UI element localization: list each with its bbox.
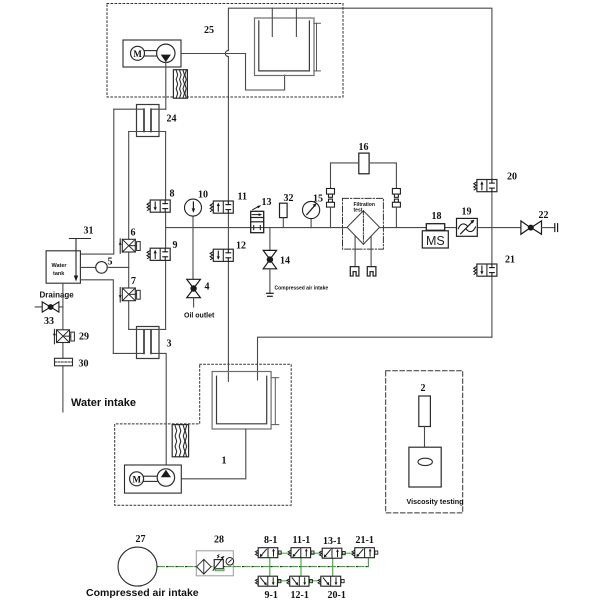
wire: vertical line down to valve 11: [227, 57, 229, 201]
wire: sampling line right: [370, 236, 372, 267]
svg-text:24: 24: [167, 114, 177, 125]
svg-text:32: 32: [284, 193, 294, 204]
valve 11: [210, 201, 233, 213]
heater coil 25: [173, 70, 187, 99]
test filter diamond: [347, 211, 380, 245]
sensor 32: [280, 203, 288, 217]
motor-pump unit 1: [125, 465, 182, 493]
svg-text:10: 10: [198, 190, 208, 201]
wire: 16 left branch: [331, 163, 359, 189]
svg-text:31: 31: [84, 226, 94, 237]
green link bottom row 2: [309, 580, 321, 582]
shaft coupling 25: [145, 50, 157, 52]
wire: hop over pump suction line on vertical x=228.4: [225, 50, 228, 56]
green link top row 2: [310, 552, 323, 554]
svg-text:22: 22: [539, 210, 549, 221]
pilot valve 8-1: [255, 548, 281, 558]
valve 6: [119, 239, 140, 254]
svg-text:33: 33: [44, 316, 54, 327]
wire: horizontal return to tank 1 second dip tube: [258, 337, 492, 380]
svg-text:Water intake: Water intake: [71, 397, 136, 409]
heater coil 1: [172, 425, 188, 457]
pilot valve 20-1: [318, 576, 344, 586]
wire: pump 25 suction from tank 25: [181, 54, 285, 91]
svg-text:20-1: 20-1: [328, 590, 346, 600]
green stub 13-1/20-1: [332, 558, 334, 576]
water tank: [46, 251, 80, 283]
pump circle 25 with down flow triangle: [157, 44, 175, 62]
valve 29: [53, 329, 74, 344]
air gauge 28: [226, 558, 234, 566]
thermometer 10: [192, 216, 194, 228]
air intake circle 27: [118, 547, 157, 586]
svg-text:25: 25: [204, 25, 214, 36]
svg-text:30: 30: [79, 359, 89, 370]
wire: viscometer stem: [424, 427, 426, 462]
wire: between valve 11 and valve 12: [227, 213, 229, 249]
tank 25 dip tube 2: [295, 8, 297, 36]
outlet valve 22: [521, 221, 542, 234]
motor M circle 1: [130, 472, 144, 486]
svg-text:Oil outlet: Oil outlet: [184, 313, 215, 320]
svg-text:4: 4: [205, 282, 210, 293]
water filling port 31: [69, 238, 90, 240]
wire: drainage line: [35, 306, 63, 308]
wire: water tank top connection up to exchanger 24: [80, 109, 113, 254]
water filter 30: [55, 358, 73, 366]
green link top row 3: [341, 552, 355, 554]
motor-pump unit of tank 25: [123, 40, 181, 67]
wire: pump 5 to cooling pipe: [107, 266, 128, 268]
heat exchanger 3: [137, 327, 160, 359]
MS measuring box: [422, 231, 448, 248]
wire: left cooling pipe with valves 6,7: [128, 132, 130, 240]
wire: line 20/21 between valves and down to y=337: [491, 192, 493, 264]
svg-text:11: 11: [238, 192, 247, 203]
green stub 11-1/12-1: [300, 558, 302, 576]
svg-text:13: 13: [262, 197, 272, 208]
exchanger 3 inner tube right: [150, 330, 152, 353]
pump circle 1 with up flow triangle: [157, 469, 174, 486]
svg-text:19: 19: [462, 207, 472, 218]
green stub 21-1: [367, 558, 369, 567]
green link top row 1: [278, 552, 291, 554]
quick coupler pair right: [392, 189, 400, 208]
svg-text:21-1: 21-1: [356, 535, 374, 546]
wire: exchanger 24 bottom header: [129, 131, 166, 133]
wire: 16 right branch: [369, 163, 396, 189]
wire: main horizontal line: [166, 227, 521, 229]
svg-text:5: 5: [108, 257, 113, 268]
wire: oil outlet branch: [192, 228, 194, 280]
svg-text:3: 3: [167, 339, 172, 350]
motor M circle 25: [131, 46, 145, 60]
svg-text:Drainage: Drainage: [40, 291, 75, 300]
wire: tank to water pump 5: [80, 266, 95, 268]
svg-text:14: 14: [280, 256, 290, 267]
drain valve 33: [42, 302, 59, 312]
valve 21: [474, 264, 497, 276]
wire: exchanger 3 left outlet: [113, 352, 144, 354]
wire: exchanger 24 to pump line: [151, 108, 166, 110]
svg-text:1: 1: [222, 456, 227, 467]
valve 8: [147, 200, 170, 212]
svg-text:Compressed air intake: Compressed air intake: [275, 286, 329, 292]
wire: valve 22 outlet port: [542, 227, 555, 229]
svg-text:6: 6: [131, 228, 136, 239]
heat exchanger 24: [137, 105, 160, 137]
exchanger 24 inner tube left: [143, 109, 145, 131]
air inlet port ground mark: [267, 292, 274, 294]
wire: sampling line left: [354, 236, 356, 267]
svg-text:12: 12: [236, 241, 246, 252]
svg-text:tank: tank: [53, 271, 65, 277]
wire: right pipe through valves 8,9: [165, 132, 167, 201]
tank 1 outer shell: [212, 372, 271, 430]
wire: tank bottom connection down to exchanger 3 outlet: [80, 280, 113, 354]
water pump 5: [96, 262, 108, 274]
green stub 8-1/9-1: [269, 558, 271, 576]
svg-text:16: 16: [359, 142, 369, 153]
green air manifold line: [157, 566, 368, 568]
svg-text:11-1: 11-1: [293, 535, 311, 546]
air service unit 28 box: [196, 551, 233, 576]
svg-text:20: 20: [507, 172, 517, 183]
tank 1 inner wall: [217, 376, 267, 424]
pilot valve 12-1: [287, 576, 313, 586]
svg-text:7: 7: [131, 276, 136, 287]
svg-text:9-1: 9-1: [265, 590, 278, 600]
wire: water intake vertical line: [62, 283, 64, 330]
svg-text:28: 28: [214, 535, 224, 546]
svg-text:MS: MS: [426, 234, 445, 248]
orifice 18: [426, 224, 444, 231]
svg-text:12-1: 12-1: [291, 590, 309, 600]
svg-text:M: M: [133, 474, 142, 484]
svg-text:Compressed air intake: Compressed air intake: [86, 587, 199, 599]
svg-text:21: 21: [505, 255, 515, 266]
wire: compressed air inlet branch with valve 14: [269, 228, 271, 251]
wire: valve 12 down into tank 1 dip tube: [227, 261, 229, 381]
valve 12: [210, 249, 233, 261]
oil outlet valve 4: [187, 279, 201, 297]
pilot valve 13-1: [319, 548, 345, 558]
wire: exchanger 24 inlet from water tank top line: [114, 108, 144, 110]
air inlet valve 14: [263, 250, 276, 268]
exchanger 3 top header wire: [129, 328, 166, 330]
differential pressure indicator 16: [359, 153, 369, 174]
flow control valve 19: [457, 218, 478, 236]
dashed enclosure box 1 (L-shape): [115, 364, 292, 505]
shaft coupling 1: [144, 475, 158, 477]
svg-text:13-1: 13-1: [323, 536, 341, 547]
svg-text:Water: Water: [52, 263, 68, 269]
viscosity beaker: [409, 447, 441, 487]
svg-text:8-1: 8-1: [264, 535, 277, 546]
pressure regulator 13: [251, 211, 264, 232]
exchanger 24 inner tube right: [150, 109, 152, 131]
svg-text:M: M: [133, 49, 142, 59]
viscometer tube 2: [419, 396, 431, 427]
svg-text:9: 9: [173, 240, 178, 251]
sampling fork left: [350, 267, 359, 276]
pressure gauge 15: [310, 219, 312, 228]
wire: pump 25 discharge down to heat exchanger 24: [165, 62, 167, 109]
pilot valve 21-1: [352, 548, 378, 558]
svg-text:8: 8: [170, 189, 175, 200]
svg-text:15: 15: [313, 194, 323, 205]
valve 20: [474, 180, 497, 192]
filtration test dash-dot box: [343, 198, 384, 249]
air filter diamond 28: [197, 559, 211, 574]
viscosity testing dashed box 2: [386, 371, 463, 513]
green link bottom row 1: [278, 580, 290, 582]
tank 25 dip tube 1: [271, 8, 273, 36]
sampling fork right: [367, 267, 376, 276]
valve 9: [147, 248, 170, 260]
tank 25 outer shell: [255, 18, 315, 76]
valve 7: [119, 288, 140, 303]
tank 1 level gauge: [274, 378, 276, 425]
quick coupler pair left: [327, 189, 335, 208]
svg-text:18: 18: [432, 211, 442, 222]
tank 25 level gauge: [316, 23, 318, 71]
wire: top collector line from node above valve 11 line to line 20/21: [228, 8, 492, 179]
wire: tank 1 suction to pump 1: [181, 429, 246, 479]
dashed enclosure box 25: [107, 4, 343, 98]
wire: exchanger 3 right outlet down to pump 1: [151, 353, 166, 468]
svg-text:29: 29: [79, 332, 89, 343]
exchanger 3 inner tube left: [143, 330, 145, 353]
tank 25 inner wall: [259, 21, 310, 71]
wire: couplers down to main line: [330, 207, 332, 228]
svg-text:27: 27: [136, 534, 146, 545]
air regulator 28: [214, 560, 223, 569]
pilot valve 9-1: [255, 576, 281, 586]
svg-text:2: 2: [421, 383, 426, 394]
svg-text:Viscosity testing: Viscosity testing: [407, 497, 464, 506]
pilot valve 11-1: [288, 548, 314, 558]
